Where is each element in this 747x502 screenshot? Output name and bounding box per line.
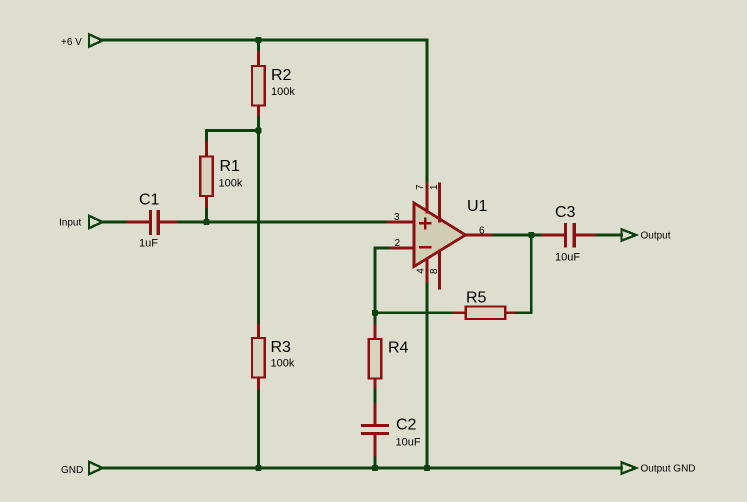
svg-text:+6 V: +6 V (61, 37, 82, 48)
svg-text:4: 4 (415, 268, 426, 274)
svg-text:8: 8 (429, 268, 440, 274)
terminal Input (59, 216, 103, 229)
plus symbol (420, 219, 430, 229)
pin 7 lead (426, 184, 429, 212)
wire R3 bottom to rail (257, 388, 260, 469)
wire R2 top green (257, 41, 260, 53)
wire feedback node horizontal (375, 311, 455, 314)
svg-text:R4: R4 (388, 340, 409, 357)
svg-text:100k: 100k (219, 178, 243, 190)
wire bottom rail (103, 467, 622, 470)
svg-text:C1: C1 (139, 192, 160, 209)
capacitor C2 (361, 405, 421, 458)
wire R4 top green (374, 313, 377, 327)
svg-text:2: 2 (395, 238, 401, 249)
node pin4 rail junction (424, 465, 430, 471)
wire R1 top green (205, 131, 208, 144)
svg-text:C2: C2 (396, 417, 417, 434)
resistor R1 (200, 143, 243, 211)
terminal Output (622, 229, 671, 241)
svg-text:R1: R1 (220, 158, 241, 175)
wire C3 to output terminal (597, 234, 622, 237)
node R3 rail junction (256, 465, 262, 471)
svg-text:1: 1 (429, 184, 440, 190)
pin 3 lead (389, 221, 415, 224)
pin 8 lead (438, 251, 441, 288)
wire top rail +6V (103, 39, 428, 42)
svg-text:R5: R5 (466, 290, 487, 307)
terminal +6V (61, 34, 103, 48)
capacitor C3 (543, 204, 598, 264)
svg-text:R2: R2 (271, 67, 292, 84)
resistor R5 (454, 290, 517, 320)
capacitor C1 (128, 192, 180, 250)
wire C2 to bottom rail (374, 458, 377, 468)
wire R2 bottom to R3 (257, 118, 260, 327)
svg-text:U1: U1 (467, 198, 488, 215)
wire input to C1 (103, 221, 129, 224)
pin 4 lead (426, 259, 429, 285)
svg-text:6: 6 (479, 226, 485, 237)
node top rail / R2 junction (256, 37, 262, 43)
svg-text:10uF: 10uF (555, 252, 580, 264)
svg-text:Input: Input (59, 218, 81, 229)
wire pin4 to bottom rail (426, 284, 429, 468)
svg-text:1uF: 1uF (139, 238, 158, 250)
wire pin2 feedback (375, 248, 389, 313)
node C2 rail junction (372, 465, 378, 471)
node C1/R1 junction (204, 219, 210, 225)
op-amp U1 (389, 184, 495, 288)
svg-text:3: 3 (394, 212, 400, 223)
resistor R3 (252, 326, 295, 389)
node feedback R4 junction (372, 310, 378, 316)
terminal Output GND (622, 462, 696, 474)
wire pin7 drop (426, 40, 429, 184)
svg-text:Output: Output (641, 231, 671, 242)
wire R1 bottom green (205, 210, 208, 223)
pin 6 lead (466, 234, 495, 237)
svg-text:100k: 100k (271, 86, 295, 98)
wire R5 right to output junction (517, 235, 532, 313)
node output junction (528, 232, 534, 238)
svg-text:10uF: 10uF (396, 437, 421, 449)
svg-text:GND: GND (61, 465, 83, 476)
svg-text:Output GND: Output GND (641, 464, 696, 475)
minus symbol (420, 246, 430, 249)
svg-text:C3: C3 (555, 204, 576, 221)
resistor R2 (252, 53, 295, 119)
svg-text:7: 7 (415, 184, 426, 190)
wire R1 branch horizontal (207, 129, 259, 132)
triangle body (414, 203, 466, 267)
svg-text:R3: R3 (271, 339, 292, 356)
wire C1 to pin3 (179, 221, 389, 224)
pin 2 lead (389, 247, 415, 250)
wire R4 to C2 (374, 390, 377, 405)
wire pin6 output (494, 234, 544, 237)
terminal GND (61, 462, 103, 476)
node R1/R2 junction (256, 128, 262, 134)
pin 1 lead (438, 184, 441, 221)
resistor R4 (369, 326, 409, 391)
svg-text:100k: 100k (271, 358, 295, 370)
